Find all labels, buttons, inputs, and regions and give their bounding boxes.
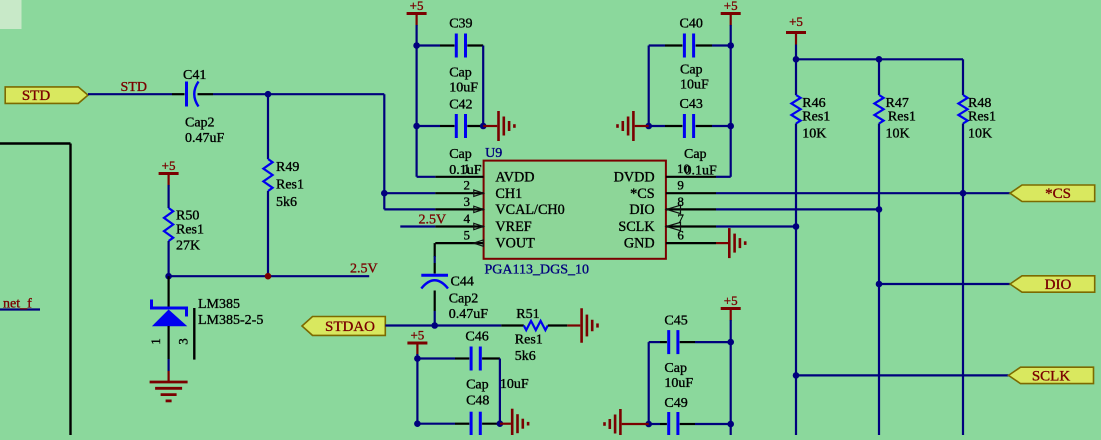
svg-text:10uF: 10uF: [449, 81, 478, 96]
svg-text:10K: 10K: [886, 127, 910, 142]
label C41 Cap2 0.47uF: [183, 68, 225, 146]
svg-text:1: 1: [148, 338, 163, 345]
svg-text:R50: R50: [176, 209, 199, 224]
wire +5 column / AVDD: [417, 25, 436, 177]
svg-text:2.5V: 2.5V: [350, 261, 378, 276]
svg-text:Res1: Res1: [276, 178, 304, 193]
svg-text:0.47uF: 0.47uF: [449, 307, 489, 322]
capacitor C45: [649, 313, 731, 390]
ground (LM385): [150, 371, 188, 401]
label U9 part name PGA113_DGS_10: [485, 263, 590, 278]
resistor R47: [874, 59, 916, 141]
svg-text:10uF: 10uF: [664, 376, 693, 391]
svg-text:*CS: *CS: [1045, 186, 1071, 202]
svg-text:Cap: Cap: [680, 63, 703, 78]
junction *CS/R48: [960, 190, 967, 197]
ground (C49): [605, 409, 649, 439]
svg-text:*CS: *CS: [630, 186, 655, 202]
capacitor C46: [417, 330, 529, 393]
LM385 pin 3 stub: [193, 308, 195, 360]
wire STDAO: [385, 324, 501, 326]
U9 pin 10 DVDD: [614, 161, 716, 185]
wire VOUT down: [434, 243, 436, 263]
svg-text:7: 7: [677, 211, 684, 226]
resistor R49: [263, 94, 272, 276]
svg-text:10K: 10K: [802, 127, 826, 142]
U9 pin 4 VREF: [435, 211, 531, 235]
svg-text:0.1uF: 0.1uF: [449, 163, 482, 178]
wire C40-C43 left column: [648, 46, 650, 127]
U9 pin 6 GND: [624, 228, 716, 252]
svg-text:10uF: 10uF: [680, 78, 709, 93]
net label STD: [121, 80, 147, 95]
IC U9 PGA113_DGS_10 (body): [484, 161, 666, 259]
svg-text:+5: +5: [410, 328, 424, 343]
svg-text:C49: C49: [664, 396, 687, 411]
wire C39-C42 right column: [482, 46, 484, 127]
capacitor C48: [417, 394, 500, 436]
svg-text:STDAO: STDAO: [325, 319, 375, 335]
capacitor C44: [421, 263, 488, 326]
svg-text:4: 4: [464, 211, 471, 226]
pin number 1 (LM385): [148, 338, 163, 345]
ground (C42): [483, 111, 514, 141]
svg-text:DIO: DIO: [629, 202, 654, 218]
U9 pin 2 CH1: [435, 178, 522, 202]
svg-text:Res1: Res1: [176, 223, 204, 238]
capacitor C39: [417, 17, 484, 96]
label LM385 LM385-2-5: [198, 297, 263, 328]
capacitor C49: [649, 396, 731, 436]
U9 pin 9 *CS: [630, 178, 716, 202]
junction STD/R49: [265, 91, 272, 98]
junction DIO column: [876, 281, 883, 288]
svg-text:LM385: LM385: [198, 297, 240, 312]
U9 pin 3 VCAL/CH0: [435, 194, 564, 218]
capacitor C40: [649, 17, 731, 93]
wire C46 left column: [416, 359, 418, 424]
svg-text:10uF: 10uF: [500, 377, 529, 392]
power +5 (C45/C49): [721, 293, 741, 342]
svg-text:Res1: Res1: [888, 110, 916, 125]
svg-text:+5: +5: [789, 14, 803, 29]
power +5 (C46/C48): [407, 328, 427, 359]
junction C42 left: [413, 123, 420, 130]
capacitor C43: [649, 97, 731, 178]
junction SCLK column: [793, 372, 800, 379]
wire C46-C48 right column: [499, 359, 501, 424]
svg-text:Cap: Cap: [664, 361, 687, 376]
svg-text:C44: C44: [451, 275, 474, 290]
svg-text:DIO: DIO: [1045, 277, 1072, 293]
svg-text:C45: C45: [664, 313, 687, 328]
junction C45 right: [727, 339, 734, 346]
junction C46 left: [414, 355, 421, 362]
junction C39 left: [413, 42, 420, 49]
wire SCLK pin: [716, 225, 796, 227]
resistor R48: [958, 59, 996, 141]
junction C43 left / ground tap: [645, 123, 652, 130]
svg-text:R49: R49: [276, 160, 299, 175]
resistor R51: [501, 307, 567, 364]
svg-text:CH1: CH1: [495, 186, 522, 202]
svg-text:0.1uF: 0.1uF: [685, 163, 718, 178]
junction C49 left: [645, 421, 652, 428]
junction R49/2.5V: [265, 273, 272, 280]
svg-text:Cap: Cap: [449, 66, 472, 81]
svg-text:LM385-2-5: LM385-2-5: [198, 313, 263, 328]
power +5 (R50): [159, 158, 179, 186]
svg-text:net_f: net_f: [3, 297, 32, 312]
label R50 Res1 27K: [176, 209, 204, 254]
junction CH1: [381, 190, 388, 197]
junction C48 right / ground tap: [497, 420, 504, 427]
wire VCAL/CH0: [384, 208, 435, 210]
svg-text:+5: +5: [410, 0, 424, 13]
svg-text:10K: 10K: [968, 127, 992, 142]
svg-text:SCLK: SCLK: [1032, 368, 1071, 384]
svg-text:VOUT: VOUT: [495, 236, 535, 252]
wire 2.5V stub: [169, 275, 370, 277]
svg-text:3: 3: [176, 338, 191, 345]
svg-text:Cap2: Cap2: [449, 292, 479, 307]
U9 pin 7 SCLK: [618, 211, 716, 235]
svg-text:Res1: Res1: [515, 333, 543, 348]
junction C43 right: [727, 123, 734, 130]
port STDAO: [302, 317, 385, 336]
svg-text:3: 3: [464, 194, 471, 209]
svg-text:8: 8: [677, 194, 684, 209]
svg-text:+5: +5: [162, 158, 176, 173]
junction rail/R47: [876, 56, 883, 63]
resistor R50: [164, 185, 173, 276]
svg-text:27K: 27K: [176, 239, 200, 254]
svg-text:9: 9: [677, 178, 684, 193]
wire DIO to port: [879, 283, 1010, 285]
port DIO: [1010, 276, 1095, 293]
U9 pin 8 DIO: [629, 194, 716, 218]
svg-text:C40: C40: [680, 17, 703, 32]
svg-text:C42: C42: [449, 98, 472, 113]
wire STD: [88, 93, 384, 95]
diode LM385 (zener): [152, 276, 188, 371]
wire DIO pin: [716, 208, 879, 210]
svg-text:5: 5: [464, 228, 471, 243]
svg-text:2: 2: [464, 178, 471, 193]
junction C48 left: [414, 420, 421, 427]
net label 2.5V (VREF): [419, 213, 447, 228]
wire +5 rail: [796, 58, 963, 60]
wire net_f stub: [0, 308, 40, 310]
svg-text:U9: U9: [485, 146, 502, 161]
junction STDAO/C44: [431, 322, 438, 329]
wire C41 to CH1 (vertical): [383, 94, 385, 209]
wire *CS: [716, 192, 1010, 194]
wire R46 to SCLK column: [795, 124, 797, 436]
svg-text:Res1: Res1: [802, 110, 830, 125]
svg-text:STD: STD: [22, 88, 51, 104]
svg-text:5k6: 5k6: [515, 349, 536, 364]
svg-text:PGA113_DGS_10: PGA113_DGS_10: [485, 263, 590, 278]
port *CS: [1010, 185, 1095, 202]
junction SCLK/R46: [793, 223, 800, 230]
svg-text:SCLK: SCLK: [618, 219, 655, 235]
junction C42 right / ground tap: [480, 123, 487, 130]
power +5 (pull-ups): [786, 14, 806, 59]
wire C45-C49 left column: [648, 342, 650, 424]
svg-text:GND: GND: [624, 236, 655, 252]
svg-text:5k6: 5k6: [276, 195, 297, 210]
svg-text:Cap: Cap: [466, 378, 489, 393]
wire DVDD to +5: [716, 126, 731, 177]
svg-text:6: 6: [677, 228, 684, 243]
label R49 Res1 5k6: [276, 160, 304, 210]
svg-text:C46: C46: [465, 330, 488, 345]
svg-text:Cap: Cap: [449, 147, 472, 162]
svg-text:C43: C43: [680, 97, 703, 112]
svg-text:AVDD: AVDD: [495, 169, 534, 185]
junction R50/LM385: [165, 273, 172, 280]
svg-text:+5: +5: [724, 293, 738, 308]
wire R47 to DIO column: [878, 124, 880, 436]
wire +5 column right: [730, 25, 732, 126]
svg-text:C41: C41: [183, 68, 206, 83]
svg-text:Res1: Res1: [968, 110, 996, 125]
svg-text:Cap2: Cap2: [185, 116, 215, 131]
pin number 3 (LM385): [176, 338, 191, 345]
power +5 (C40/C43): [721, 0, 741, 26]
svg-text:R51: R51: [516, 307, 539, 322]
capacitor C41: [172, 82, 213, 107]
svg-text:C39: C39: [449, 17, 472, 32]
svg-text:STD: STD: [121, 80, 147, 95]
net label net_f: [3, 297, 32, 312]
ground (U9 GND pin): [716, 228, 745, 258]
U9 pin 1 AVDD: [435, 161, 534, 185]
label U9 designator: [485, 146, 502, 161]
svg-text:+5: +5: [724, 0, 738, 13]
resistor R46: [791, 59, 830, 141]
net label 2.5V: [350, 261, 378, 276]
svg-text:VREF: VREF: [495, 219, 531, 235]
port STD: [5, 87, 88, 104]
power +5 (C39/C42): [407, 0, 427, 26]
svg-text:C48: C48: [466, 394, 489, 409]
wire C45 +5 column down: [730, 342, 732, 435]
ground (C48): [500, 409, 528, 439]
ground (R51): [567, 308, 597, 343]
wire R48 to *CS row: [962, 124, 964, 436]
capacitor C42: [417, 98, 484, 179]
junction C40 right: [727, 42, 734, 49]
junction rail/R46: [793, 56, 800, 63]
U9 pin 5 VOUT: [435, 228, 535, 252]
wire SCLK to port: [796, 374, 1009, 376]
ground (C43): [618, 111, 649, 141]
svg-text:DVDD: DVDD: [614, 169, 655, 185]
wire VREF 2.5V stub: [400, 225, 435, 227]
sheet symbol (partial, left edge): [0, 144, 71, 436]
svg-text:0.47uF: 0.47uF: [185, 131, 225, 146]
wire CH1: [384, 192, 435, 194]
junction C49 right: [727, 421, 734, 428]
svg-text:VCAL/CH0: VCAL/CH0: [495, 202, 564, 218]
svg-text:2.5V: 2.5V: [419, 213, 447, 228]
port SCLK: [1009, 367, 1094, 384]
svg-text:Cap: Cap: [684, 147, 707, 162]
junction DIO/R47: [876, 206, 883, 213]
